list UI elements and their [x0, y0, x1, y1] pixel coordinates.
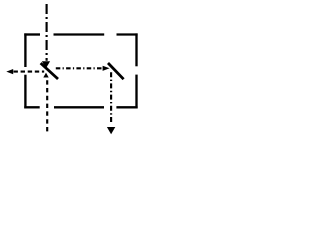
switch blade S1 (left) — [41, 63, 58, 79]
arrowhead: down arrow at end of top dash-dot line — [42, 61, 50, 68]
wire: bottom edge right segment — [116, 106, 137, 108]
wire: top edge middle segment — [54, 33, 105, 35]
arrowhead: left arrow on dashed line — [6, 69, 13, 74]
wire: right edge upper segment — [135, 33, 137, 66]
link line: horizontal dash-dot to right switch — [56, 67, 103, 69]
wire: left edge lower segment — [24, 75, 26, 109]
link line: vertical dash-dot below right switch — [110, 72, 112, 124]
switch blade S2 (right) — [108, 63, 124, 79]
arrowhead: right arrow at end of dash-dot link — [103, 66, 110, 71]
wire: top edge left segment — [24, 33, 40, 35]
link line: vertical dash-dot from top to left switch — [46, 4, 48, 61]
wire: bottom edge middle segment — [54, 106, 104, 108]
wire: top edge right segment — [117, 33, 138, 35]
wire: left edge upper segment — [24, 33, 26, 67]
motion line: horizontal dashed to left with arrow — [14, 71, 45, 73]
motion line: vertical dashed below left switch — [46, 80, 48, 132]
wire: bottom edge left segment — [24, 106, 39, 108]
arrowhead: up arrow under left blade — [43, 73, 48, 78]
wire: right edge lower segment — [135, 75, 137, 109]
arrowhead: down arrow at bottom of right dash-dot line — [107, 127, 115, 134]
